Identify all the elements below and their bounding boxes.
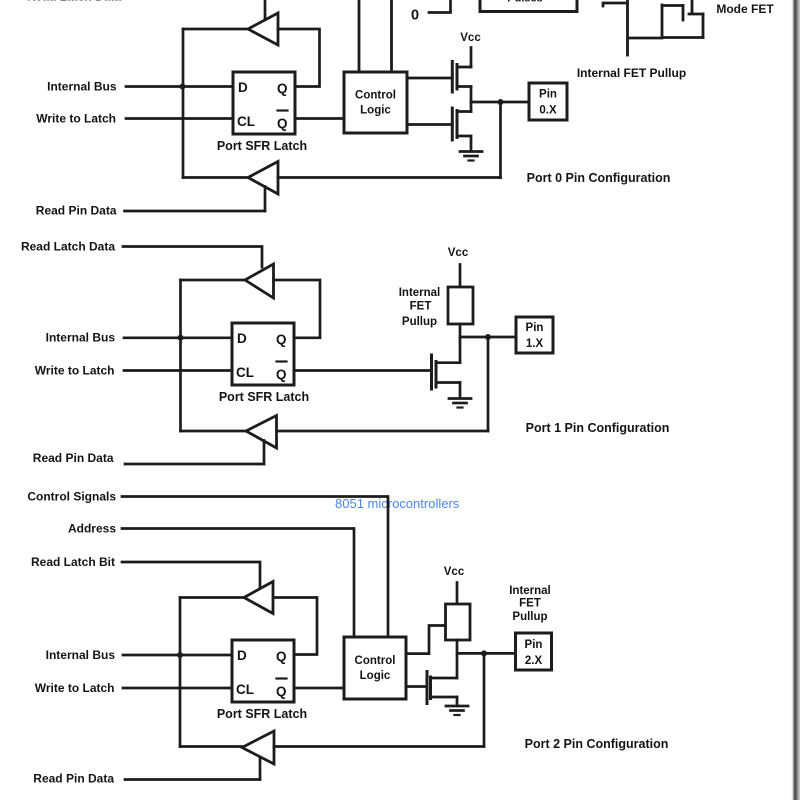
svg-text:Read Latch Data: Read Latch Data xyxy=(21,240,115,254)
transistor Q1 drain stub xyxy=(457,66,471,69)
transistor Q2 gate bar xyxy=(451,108,454,140)
svg-text:Read Pin Data: Read Pin Data xyxy=(33,451,114,465)
svg-text:Pin: Pin xyxy=(526,322,544,334)
wire buffer output to internal bus xyxy=(180,596,244,599)
tri-state read-pin buffer (Port 1) xyxy=(246,416,277,449)
wire to read-pin buffer tip xyxy=(183,176,249,179)
label Pin 2.X xyxy=(525,639,543,667)
wire Write to Latch xyxy=(124,369,232,372)
wire control logic to pullup gate xyxy=(406,626,446,654)
svg-text:Port SFR Latch: Port SFR Latch xyxy=(219,390,309,404)
wire node down to read-pin buffer xyxy=(483,653,486,746)
wire from 0 node xyxy=(429,0,451,13)
label Internal FET Pullup (Port 1) xyxy=(399,287,441,328)
wire buffer output to internal bus xyxy=(181,279,246,282)
svg-text:CL: CL xyxy=(236,365,254,380)
svg-text:Read Pin Data: Read Pin Data xyxy=(36,204,117,218)
label Control Logic xyxy=(355,90,396,117)
box pulses (cut off) xyxy=(480,0,577,12)
transistor Q1 source stub xyxy=(457,85,471,88)
label Pin 1.X xyxy=(526,322,544,350)
wire Read Latch Bit enable xyxy=(122,562,260,589)
ground Port 1 xyxy=(449,399,471,408)
op-amp control logic box U1 xyxy=(344,72,407,133)
label Internal FET Pullup (Port 2) xyxy=(509,585,551,623)
wire source to ground xyxy=(456,697,459,706)
label Control Logic xyxy=(355,655,396,682)
wire source to output node xyxy=(470,87,473,103)
svg-text:Logic: Logic xyxy=(360,670,391,682)
wire internal bus vertical xyxy=(179,598,182,747)
transistor Q3 drain stub xyxy=(436,361,460,364)
svg-text:CL: CL xyxy=(237,114,255,129)
transistor Q2 drain stub xyxy=(457,110,471,113)
tri-state read-latch buffer (Port 2) xyxy=(244,582,273,614)
latch box Port 0 SFR latch xyxy=(233,72,295,134)
svg-text:Q: Q xyxy=(277,116,288,131)
svg-text:Pullup: Pullup xyxy=(512,611,547,623)
svg-text:Port SFR Latch: Port SFR Latch xyxy=(217,707,307,721)
svg-text:D: D xyxy=(237,331,247,346)
svg-text:Write to Latch: Write to Latch xyxy=(35,364,115,378)
wire drain to Vcc xyxy=(470,48,473,68)
transistor Q3 source stub xyxy=(436,381,460,384)
wire Read Pin Data xyxy=(125,778,260,781)
transistor Q1 channel bar xyxy=(456,65,459,90)
svg-text:FET: FET xyxy=(410,301,432,313)
svg-text:Vcc: Vcc xyxy=(448,247,469,259)
wire Q-bar to FET gate xyxy=(294,369,432,372)
svg-text:2.X: 2.X xyxy=(525,655,543,667)
wire control logic to FET gate xyxy=(406,685,427,688)
svg-text:Vcc: Vcc xyxy=(444,566,465,578)
pin label Q-bar xyxy=(276,362,287,383)
wire to read-pin buffer tip xyxy=(180,745,242,748)
wire control signal into control logic xyxy=(358,0,361,71)
wire mode FET branch xyxy=(628,37,663,40)
wire Internal Bus xyxy=(124,336,232,339)
wire Address to control logic xyxy=(122,529,354,638)
transistor Q1 gate bar xyxy=(451,62,454,93)
svg-text:Control Signals: Control Signals xyxy=(27,490,116,504)
svg-text:Mode FET: Mode FET xyxy=(716,2,774,16)
resistor internal FET pullup (Port 2) xyxy=(446,604,471,640)
svg-text:D: D xyxy=(237,648,247,663)
wire read latch enable to buffer xyxy=(264,0,267,21)
wire Q output to buffer xyxy=(278,29,320,87)
svg-text:Port 0 Pin Configuration: Port 0 Pin Configuration xyxy=(527,171,671,185)
svg-text:Pulses: Pulses xyxy=(507,0,542,5)
frame right border shadow xyxy=(789,0,800,800)
svg-text:Address: Address xyxy=(68,522,116,536)
svg-text:0.X: 0.X xyxy=(539,105,557,117)
svg-text:Internal: Internal xyxy=(399,287,441,299)
ground Port 0 xyxy=(460,152,482,161)
transistor Q4 pull-down FET gate bar xyxy=(426,672,429,704)
svg-text:Pullup: Pullup xyxy=(402,316,437,328)
wire Write to Latch xyxy=(123,687,232,690)
wire node to pin box xyxy=(471,101,529,104)
transistor Q3 pull-down FET gate bar xyxy=(430,355,433,389)
svg-text:0: 0 xyxy=(411,8,419,24)
svg-text:Port 2 Pin Configuration: Port 2 Pin Configuration xyxy=(525,737,669,751)
op-amp control logic box U2 xyxy=(344,637,406,699)
svg-text:Control: Control xyxy=(355,90,396,102)
wire pin to buffer input xyxy=(274,745,484,748)
tri-state read-pin buffer (Port 2) xyxy=(242,731,274,764)
pin box Pin 2.X xyxy=(516,633,552,670)
wire Read Pin Data xyxy=(125,210,266,213)
svg-text:Control: Control xyxy=(355,655,396,667)
svg-text:Read Latch Data: Read Latch Data xyxy=(27,0,121,4)
wire Read Pin Data xyxy=(125,463,264,466)
node internal bus junction xyxy=(180,84,186,90)
label Pin 0.X xyxy=(539,89,557,117)
wire to read-pin buffer tip xyxy=(181,430,248,433)
svg-text:FET: FET xyxy=(519,598,541,610)
wire source to ground xyxy=(470,136,473,151)
wire node to pin box xyxy=(460,336,516,339)
wire Q output to buffer xyxy=(274,280,321,338)
svg-text:CL: CL xyxy=(236,682,254,697)
wire internal bus vertical xyxy=(182,29,185,178)
svg-text:Q: Q xyxy=(276,367,287,382)
latch box Port 2 SFR latch xyxy=(232,640,294,702)
transistor Q2 channel bar xyxy=(456,111,459,138)
node internal bus junction xyxy=(178,335,184,341)
wire node to drain xyxy=(470,102,473,112)
pin label Q-bar xyxy=(276,679,287,700)
svg-text:Port SFR Latch: Port SFR Latch xyxy=(217,139,307,153)
transistor Q2 pull-down FET gate wire xyxy=(407,123,452,126)
svg-text:8051 microcontrollers: 8051 microcontrollers xyxy=(335,496,460,511)
wire Read Latch Data xyxy=(123,247,262,268)
wire mode FET hook xyxy=(603,3,628,6)
wire read pin enable xyxy=(259,757,262,780)
pin label Q-bar xyxy=(277,111,288,132)
pin box Pin 0.X xyxy=(529,83,567,120)
svg-text:Internal Bus: Internal Bus xyxy=(47,80,117,94)
node pin junction xyxy=(481,650,487,656)
node internal bus junction xyxy=(177,652,183,658)
wire Vcc to pullup xyxy=(459,265,462,288)
wire address into control logic xyxy=(390,0,393,71)
ground Port 2 xyxy=(446,706,468,715)
node pin junction xyxy=(485,334,491,340)
tri-state read-latch buffer (Port 1) xyxy=(245,264,274,298)
transistor Q3 channel bar xyxy=(435,362,438,388)
wire Write to Latch xyxy=(126,117,233,120)
wire read pin enable xyxy=(263,441,266,465)
pin box Pin 1.X xyxy=(516,317,553,353)
wire node to pin box xyxy=(457,652,516,655)
wire Internal Bus xyxy=(126,85,233,88)
wire pullup to node and drain xyxy=(459,324,462,363)
svg-text:Write to Latch: Write to Latch xyxy=(35,681,115,695)
svg-text:Write to Latch: Write to Latch xyxy=(36,112,116,126)
wire internal bus vertical xyxy=(179,280,182,431)
tri-state read-pin buffer (Port 0) xyxy=(248,162,278,195)
wire Q-bar to control logic xyxy=(294,687,344,690)
svg-text:Logic: Logic xyxy=(360,105,391,117)
wire node down to read-pin buffer xyxy=(499,102,502,178)
wire source to ground xyxy=(459,383,462,399)
wire mode FET vertical xyxy=(626,0,629,55)
wire node down to read-pin buffer xyxy=(487,337,490,431)
resistor internal FET pullup (Port 1) xyxy=(448,287,473,324)
svg-text:Pin: Pin xyxy=(539,89,557,101)
transistor Q4 drain stub xyxy=(431,677,458,680)
wire Internal Bus xyxy=(123,654,232,657)
svg-text:Internal Bus: Internal Bus xyxy=(46,331,116,345)
svg-text:Port 1 Pin Configuration: Port 1 Pin Configuration xyxy=(526,421,670,435)
svg-text:Internal Bus: Internal Bus xyxy=(46,648,116,662)
wire Control Signals to control logic xyxy=(122,497,388,638)
svg-text:Pin: Pin xyxy=(525,639,543,651)
svg-text:Internal: Internal xyxy=(509,585,551,597)
node pin junction xyxy=(498,99,504,105)
svg-text:Vcc: Vcc xyxy=(460,32,481,44)
transistor Q4 channel bar xyxy=(429,677,432,699)
wire read pin enable xyxy=(264,187,267,212)
transistor Q4 source stub xyxy=(431,696,458,699)
svg-text:Read Pin Data: Read Pin Data xyxy=(33,772,114,786)
transistor mode FET body xyxy=(662,0,703,38)
wire pullup to node and drain xyxy=(456,640,459,678)
svg-text:Q: Q xyxy=(276,332,287,347)
tri-state read-latch buffer (Port 0) xyxy=(248,13,278,45)
wire Q-bar to control logic xyxy=(295,117,344,120)
svg-text:Read Latch Bit: Read Latch Bit xyxy=(31,555,115,569)
svg-text:Internal FET Pullup: Internal FET Pullup xyxy=(577,66,686,80)
latch box Port 1 SFR latch xyxy=(232,323,294,385)
wire pin to buffer input xyxy=(278,176,501,179)
svg-text:D: D xyxy=(238,80,248,95)
svg-text:Q: Q xyxy=(277,81,288,96)
transistor Q1 pull-up FET gate wire xyxy=(407,77,452,80)
wire buffer output to internal bus xyxy=(183,28,248,31)
svg-text:Q: Q xyxy=(276,684,287,699)
svg-text:1.X: 1.X xyxy=(526,338,544,350)
wire pin to buffer input xyxy=(277,430,489,433)
transistor Q2 source stub xyxy=(457,135,471,138)
wire Q output to buffer xyxy=(273,598,317,655)
svg-text:Q: Q xyxy=(276,649,287,664)
wire Vcc to pullup xyxy=(456,583,459,605)
